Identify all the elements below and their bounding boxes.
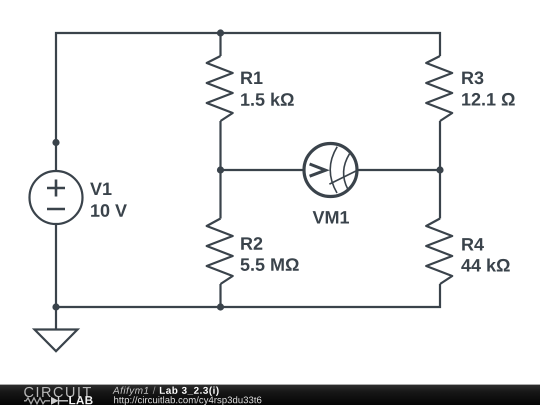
wire V1 bottom terminal to bottom rail <box>55 224 57 308</box>
wire R2 top lead <box>219 170 221 219</box>
value label R1: 1.5 kOhm <box>241 93 294 106</box>
wire R4 top lead <box>439 170 441 219</box>
wire R1 top lead <box>219 33 221 56</box>
logo LAB wordmark <box>69 396 92 404</box>
VM1 chevron <box>310 164 326 176</box>
logo CIRCUIT wordmark <box>24 387 91 397</box>
wire bottom rail with right rise to R4 <box>56 284 440 307</box>
resistor R4 <box>426 219 452 285</box>
VM1 scale arc 1 <box>330 147 337 193</box>
wire top rail with left vertical to V1 and right drop to R3 <box>56 33 440 172</box>
voltmeter VM1 body <box>304 144 357 197</box>
resistor R1 <box>207 56 233 121</box>
value label R2: 5.5 MOhm <box>241 258 299 271</box>
label VM1 <box>313 211 349 223</box>
value label R3: 12.1 Ohm <box>462 93 515 106</box>
wire R3 bottom lead <box>439 121 441 170</box>
label R2 <box>241 237 262 250</box>
wire middle rail left: node B to VM1 <box>221 169 304 171</box>
label R3 <box>462 71 483 84</box>
label R4 <box>462 238 484 250</box>
node: left wire / V1 top terminal <box>52 139 59 146</box>
wire ground stem <box>55 307 57 330</box>
node: R2 / bottom rail junction <box>217 303 224 310</box>
footer title: Afifym1 <box>113 387 149 396</box>
wire R1 bottom lead <box>219 121 221 170</box>
V1 minus sign <box>47 208 65 211</box>
VM1 needle <box>329 170 358 184</box>
VM1 scale arc 2 <box>344 154 350 189</box>
ground symbol triangle <box>35 330 78 352</box>
logo diode symbol <box>51 397 59 405</box>
footer title: Lab 3_2.3(i) <box>160 387 219 396</box>
voltage source V1 body <box>30 171 83 224</box>
footer title separator slash <box>153 387 156 394</box>
label V1 <box>90 183 111 195</box>
resistor R2 <box>207 219 233 285</box>
footer url line <box>114 396 261 405</box>
value label V1: 10 V <box>91 204 127 217</box>
resistor R3 <box>426 56 452 121</box>
label R1 <box>241 72 262 84</box>
footer bar background <box>0 385 540 405</box>
node: top rail / R1 junction <box>217 29 224 36</box>
value label R4: 44 kOhm <box>461 258 509 271</box>
logo resistor squiggle <box>24 398 50 404</box>
node B: R1/R2/VM1 junction <box>217 166 224 173</box>
V1 plus sign <box>47 180 65 197</box>
node C: R3/R4/VM1 junction <box>436 166 443 173</box>
wire R2 bottom lead <box>219 284 221 307</box>
node: ground / bottom rail junction <box>52 303 59 310</box>
wire middle rail right: VM1 to node C <box>358 169 441 171</box>
